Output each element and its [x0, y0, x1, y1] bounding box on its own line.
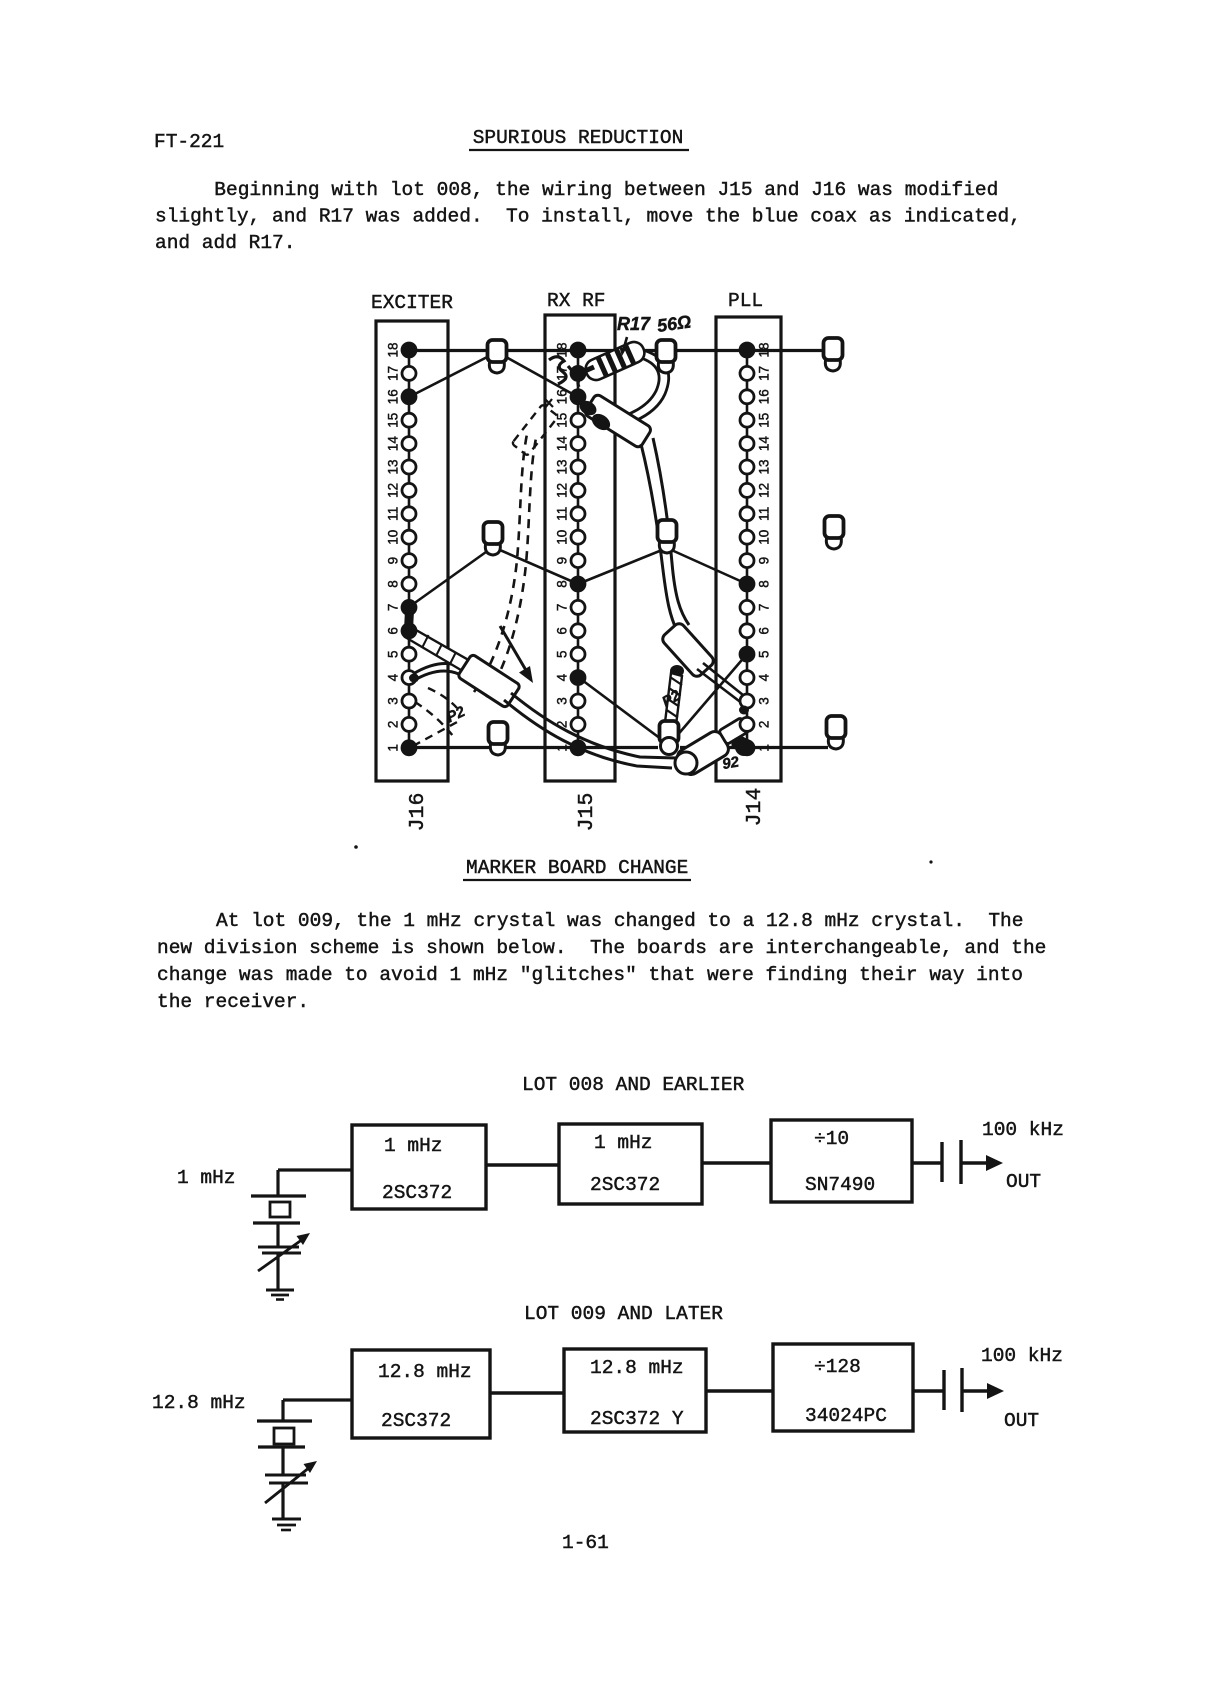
svg-text:5: 5 [386, 650, 401, 658]
svg-text:8: 8 [757, 580, 772, 588]
svg-text:J14: J14 [743, 788, 767, 827]
svg-text:12.8 mHz: 12.8 mHz [590, 1357, 684, 1379]
svg-text:and add R17.: and add R17. [155, 232, 295, 254]
svg-text:3: 3 [555, 697, 570, 705]
svg-text:2: 2 [555, 721, 570, 729]
svg-text:100 kHz: 100 kHz [982, 1119, 1064, 1141]
svg-text:At lot 009, the 1 mHz crystal: At lot 009, the 1 mHz crystal was change… [216, 910, 1023, 932]
svg-text:9: 9 [757, 557, 772, 565]
svg-text:6: 6 [757, 627, 772, 635]
svg-text:slightly, and R17 was added.: slightly, and R17 was added. To install,… [155, 206, 1021, 228]
svg-text:5: 5 [555, 650, 570, 658]
svg-text:SPURIOUS REDUCTION: SPURIOUS REDUCTION [473, 127, 684, 149]
svg-text:1 mHz: 1 mHz [594, 1132, 653, 1154]
svg-text:14: 14 [386, 436, 401, 452]
svg-text:the receiver.: the receiver. [157, 991, 309, 1013]
svg-text:5: 5 [757, 650, 772, 658]
svg-text:2: 2 [757, 721, 772, 729]
svg-text:14: 14 [757, 436, 772, 452]
svg-text:1: 1 [386, 744, 401, 752]
svg-text:1: 1 [555, 744, 570, 752]
svg-text:13: 13 [555, 459, 570, 474]
svg-text:Beginning with lot 008, the wi: Beginning with lot 008, the wiring betwe… [214, 179, 998, 201]
svg-text:12: 12 [757, 483, 772, 498]
svg-text:1: 1 [757, 744, 772, 752]
svg-text:FT-221: FT-221 [154, 131, 224, 153]
svg-text:12.8 mHz: 12.8 mHz [152, 1392, 246, 1414]
svg-text:10: 10 [555, 530, 570, 545]
svg-text:÷128: ÷128 [814, 1356, 861, 1378]
svg-text:17: 17 [555, 366, 570, 381]
svg-text:2SC372: 2SC372 [381, 1410, 451, 1432]
svg-text:17: 17 [757, 366, 772, 381]
svg-text:7: 7 [757, 604, 772, 612]
svg-text:10: 10 [386, 530, 401, 545]
svg-text:56Ω: 56Ω [656, 311, 693, 336]
svg-text:2SC372 Y: 2SC372 Y [590, 1408, 684, 1430]
svg-text:11: 11 [386, 507, 401, 521]
svg-text:7: 7 [555, 604, 570, 612]
svg-text:12: 12 [555, 483, 570, 498]
svg-text:15: 15 [555, 413, 570, 428]
svg-text:R17: R17 [617, 314, 651, 334]
svg-text:12: 12 [386, 483, 401, 498]
svg-text:1 mHz: 1 mHz [384, 1135, 443, 1157]
svg-text:6: 6 [386, 627, 401, 635]
svg-text:8: 8 [386, 580, 401, 588]
svg-text:7: 7 [386, 604, 401, 612]
svg-text:4: 4 [386, 673, 401, 681]
svg-text:17: 17 [386, 366, 401, 381]
svg-text:EXCITER: EXCITER [371, 292, 453, 314]
svg-text:100 kHz: 100 kHz [981, 1345, 1063, 1367]
svg-text:9: 9 [555, 557, 570, 565]
svg-text:PLL: PLL [728, 290, 763, 312]
svg-text:92: 92 [721, 753, 741, 773]
svg-text:3: 3 [757, 697, 772, 705]
svg-text:16: 16 [555, 389, 570, 404]
svg-text:15: 15 [757, 413, 772, 428]
svg-text:change was made to avoid 1 mHz: change was made to avoid 1 mHz "glitches… [157, 964, 1023, 986]
svg-text:11: 11 [555, 507, 570, 521]
svg-text:J15: J15 [575, 793, 599, 832]
svg-text:LOT 009 AND LATER: LOT 009 AND LATER [524, 1303, 723, 1325]
svg-text:8: 8 [555, 580, 570, 588]
svg-text:J16: J16 [406, 793, 430, 832]
svg-text:16: 16 [757, 389, 772, 404]
svg-text:SN7490: SN7490 [805, 1174, 875, 1196]
svg-text:LOT 008 AND EARLIER: LOT 008 AND EARLIER [522, 1074, 745, 1096]
svg-text:12.8 mHz: 12.8 mHz [378, 1361, 472, 1383]
svg-text:OUT: OUT [1006, 1171, 1041, 1193]
svg-text:÷10: ÷10 [814, 1128, 849, 1150]
svg-text:16: 16 [386, 389, 401, 404]
svg-text:13: 13 [757, 459, 772, 474]
svg-text:2: 2 [386, 721, 401, 729]
svg-text:11: 11 [757, 507, 772, 521]
svg-text:14: 14 [555, 436, 570, 452]
svg-text:15: 15 [386, 413, 401, 428]
svg-text:4: 4 [555, 673, 570, 681]
svg-text:2SC372: 2SC372 [590, 1174, 660, 1196]
svg-text:34024PC: 34024PC [805, 1405, 887, 1427]
svg-text:18: 18 [386, 342, 401, 357]
svg-text:6: 6 [555, 627, 570, 635]
svg-text:2SC372: 2SC372 [382, 1182, 452, 1204]
svg-text:18: 18 [757, 342, 772, 357]
svg-text:3: 3 [386, 697, 401, 705]
svg-text:OUT: OUT [1004, 1410, 1039, 1432]
svg-text:MARKER BOARD CHANGE: MARKER BOARD CHANGE [466, 857, 688, 879]
svg-text:10: 10 [757, 530, 772, 545]
svg-text:13: 13 [386, 459, 401, 474]
svg-text:4: 4 [757, 673, 772, 681]
svg-text:new division scheme is shown b: new division scheme is shown below. The … [157, 937, 1046, 959]
svg-text:1-61: 1-61 [562, 1532, 609, 1554]
svg-text:9: 9 [386, 557, 401, 565]
svg-text:RX RF: RX RF [547, 290, 606, 312]
svg-text:1 mHz: 1 mHz [177, 1167, 236, 1189]
